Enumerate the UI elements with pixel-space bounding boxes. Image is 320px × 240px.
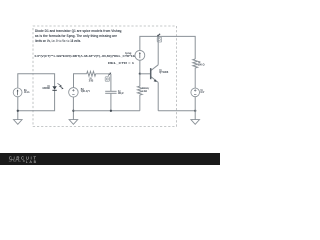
behavioral voltage source Bd (69, 88, 79, 98)
wire top rail Ipng to Rc (140, 36, 195, 59)
bottom black band (0, 153, 220, 165)
ground under Vc (191, 120, 200, 125)
ground under Bd (69, 120, 78, 125)
svg-text:limits on Vc, i.e. 0 <= Vc <=: limits on Vc, i.e. 0 <= Vc <= 18 volts. (35, 39, 81, 43)
behavioral current source Ipng (135, 50, 145, 60)
value label Ifw 10 mA (24, 89, 30, 94)
wire Q1 emitter rail to Vc ground node (158, 110, 195, 112)
name label Q1 QT1906 (159, 69, 169, 74)
junction at Cd bottom (110, 110, 112, 112)
wire D1 cathode to Ifw bottom (18, 90, 55, 111)
svg-text:280 pF: 280 pF (118, 92, 124, 95)
wire bottom rail Bd to Rdummy (73, 110, 139, 112)
svg-text:100 Ω: 100 Ω (198, 64, 205, 67)
svg-text:0.6*(V(CT)**1.499*EXP(LIMIT(A.: 0.6*(V(CT)**1.499*EXP(LIMIT(A.38-48*V(T)… (35, 54, 137, 58)
wire node CT down to Cd top (110, 74, 112, 91)
svg-text:GRN08M: GRN08M (42, 87, 49, 90)
probe icon at Q1 collector (157, 34, 162, 42)
current source Ifw (13, 88, 22, 97)
value label Rc 100 Ohm (198, 61, 205, 67)
svg-text:QT1906: QT1906 (159, 71, 169, 74)
ground under Ifw (14, 120, 23, 125)
probe icon at node CT (105, 73, 111, 82)
svg-text:LAB: LAB (26, 160, 37, 164)
dashed subcircuit box (33, 26, 177, 127)
svg-text:10 mA: 10 mA (24, 91, 30, 94)
name label D1 GRN08M (42, 85, 50, 90)
wire Ipng bottom to base node (139, 60, 141, 74)
svg-text:4 GΩ: 4 GΩ (142, 90, 147, 93)
wire Vc bottom to ground (194, 97, 196, 120)
CircuitLab logo (9, 155, 37, 164)
transistor Q1 (NPN) (151, 36, 158, 110)
svg-text:18 V: 18 V (200, 91, 204, 94)
svg-text:Ipng: Ipng (125, 51, 131, 55)
svg-text:REL_CTR = 1: REL_CTR = 1 (108, 61, 135, 65)
svg-text:18 kΩ: 18 kΩ (89, 80, 94, 83)
voltage source Vc (191, 88, 200, 97)
LED D1 (diode symbol) (52, 86, 56, 90)
value label Rdummy 4 GOhm (142, 87, 149, 93)
annotation note text (35, 29, 122, 43)
LED emission arrows (58, 83, 64, 89)
junction at Bd bottom node (72, 110, 74, 112)
wire Bd bottom to ground (72, 97, 74, 120)
svg-text:Diode D1 and transistor Q1 are: Diode D1 and transistor Q1 are spice mod… (35, 29, 122, 33)
resistor Rc (vertical zigzag) (193, 59, 198, 88)
capacitor Cd (105, 91, 116, 93)
junction at Vc ground node (194, 110, 196, 112)
resistor Rd (horizontal zigzag) (87, 71, 111, 76)
junction at Q1 base node (139, 73, 141, 75)
svg-text:as is the formula for Spng. Th: as is the formula for Spng. The only thi… (35, 34, 117, 38)
wire base node to Q1 base (140, 73, 150, 75)
value label Cd 280 pF (118, 90, 124, 95)
value label Bd V(D1.A)*1 (81, 88, 91, 93)
wire Ifw bottom to ground (17, 97, 19, 120)
junction at Ifw bottom node (17, 110, 19, 112)
value label Vc 18 V (200, 89, 204, 94)
wire Bd top to Rd left (74, 74, 87, 88)
value label Rd 18 kOhm (89, 78, 94, 83)
wire Ifw top to D1 anode (18, 74, 55, 88)
wire Cd bottom to bottom rail (110, 94, 112, 111)
svg-text:V(D1.A)*1: V(D1.A)*1 (81, 90, 91, 93)
resistor Rdummy (vertical zigzag) (137, 74, 142, 111)
